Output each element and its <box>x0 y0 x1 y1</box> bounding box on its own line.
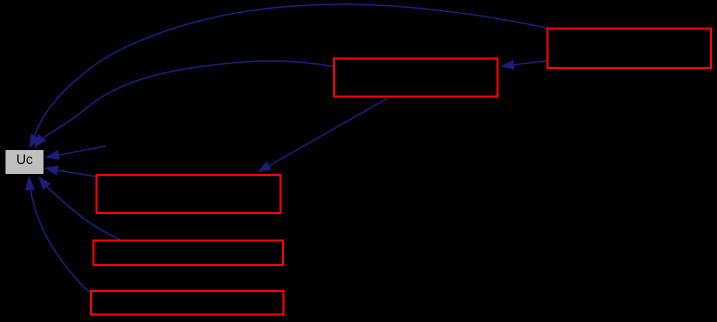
svg-text:Uc: Uc <box>16 152 33 167</box>
